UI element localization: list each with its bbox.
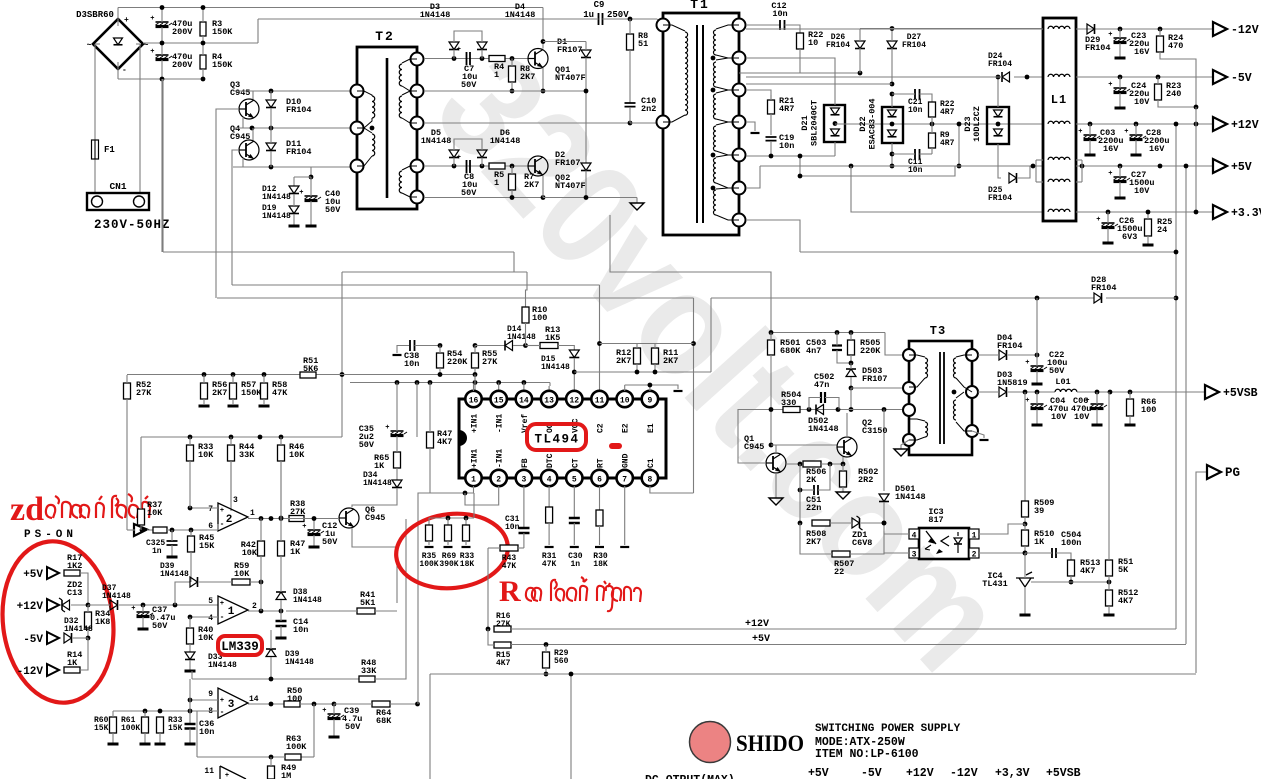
svg-text:1: 1	[494, 70, 499, 80]
resistor R59 10K	[232, 579, 250, 585]
resistor R33 10K	[187, 445, 194, 461]
transistor Q1 C945	[766, 453, 786, 473]
wire T2 r3 mid rail to T1	[424, 122, 630, 124]
wire D21 bottom	[834, 142, 836, 156]
svg-text:1n: 1n	[570, 560, 580, 569]
svg-text:SWITCHING POWER SUPPLY: SWITCHING POWER SUPPLY	[815, 723, 961, 735]
svg-text:E2: E2	[622, 423, 631, 433]
resistor R506 2K	[803, 461, 821, 467]
resistor R501 680K	[768, 340, 775, 355]
diode D3 1N4148	[449, 42, 459, 50]
wire PG riser	[1196, 472, 1207, 673]
wire pin3 FB	[523, 486, 525, 528]
svg-text:100: 100	[287, 694, 302, 704]
svg-text:1N4148: 1N4148	[541, 363, 570, 372]
svg-text:D21: D21	[800, 115, 810, 130]
diode D39b 1N4148	[266, 649, 276, 657]
svg-text:15K: 15K	[94, 724, 109, 733]
diode D501 1N4148	[879, 494, 889, 502]
output +3.3V	[1213, 205, 1227, 219]
capacitor C7 10u 50V	[467, 52, 471, 65]
logo SHIDO	[690, 722, 731, 763]
svg-text:4K7: 4K7	[1118, 596, 1133, 606]
svg-text:2K7: 2K7	[524, 180, 539, 190]
wire second rail	[143, 42, 258, 44]
resistor R507 22	[832, 551, 850, 557]
svg-text:2K7: 2K7	[212, 388, 227, 398]
svg-text:15K: 15K	[199, 541, 215, 551]
svg-text:+: +	[124, 16, 129, 25]
svg-text:50V: 50V	[461, 188, 477, 198]
svg-text:10n: 10n	[404, 359, 419, 369]
svg-text:7: 7	[208, 505, 213, 514]
svg-text:3: 3	[228, 699, 235, 711]
capacitor C06 470u 10V	[1091, 403, 1104, 405]
resistor R504 330	[783, 407, 800, 413]
svg-text:1: 1	[250, 509, 255, 518]
svg-text:9: 9	[647, 397, 652, 406]
svg-text:47K: 47K	[502, 562, 517, 571]
output -12V	[1213, 22, 1227, 36]
TL494 pin 9	[642, 391, 658, 407]
resistor R51 5K6	[300, 372, 316, 378]
resistor R33 18K	[463, 525, 470, 541]
ground near Q02	[630, 203, 644, 210]
svg-text:+5VSB: +5VSB	[1223, 387, 1258, 400]
svg-text:NT407F: NT407F	[555, 181, 586, 191]
svg-text:2: 2	[226, 514, 233, 526]
svg-text:1K: 1K	[290, 547, 301, 557]
IC U1 TL494 body	[459, 399, 666, 478]
svg-text:3: 3	[521, 476, 526, 485]
diode D12 1N4148	[289, 186, 299, 194]
wire +5VSB rail	[1008, 391, 1055, 393]
svg-text:TL431: TL431	[982, 579, 1008, 589]
svg-text:+3.3V: +3.3V	[1231, 207, 1261, 220]
TL494 pin 11	[591, 391, 607, 407]
svg-text:16V: 16V	[1149, 144, 1165, 154]
capacitor C36 10n	[185, 724, 196, 729]
wire pin7	[190, 507, 218, 509]
wire D23 bottom to D25	[998, 144, 1001, 178]
svg-text:FR107: FR107	[557, 45, 583, 55]
red mark near GND pin	[609, 443, 622, 449]
capacitor C325 1n	[167, 541, 178, 545]
resistor R61 100K	[142, 717, 149, 733]
svg-text:RT: RT	[597, 458, 606, 468]
svg-text:5K: 5K	[1118, 565, 1129, 575]
capacitor C40 10u 50V	[305, 195, 318, 197]
svg-text:TL494: TL494	[534, 433, 579, 447]
capacitor C19 10n	[766, 137, 777, 141]
svg-text:1N4148: 1N4148	[490, 136, 521, 146]
svg-text:24: 24	[1157, 225, 1167, 235]
svg-text:7: 7	[622, 476, 627, 485]
svg-text:~: ~	[87, 41, 92, 50]
resistor R8 2K7	[509, 66, 516, 82]
svg-text:-5V: -5V	[861, 767, 882, 779]
svg-text:22: 22	[834, 567, 844, 577]
svg-text:47K: 47K	[272, 388, 288, 398]
wire bus y285 to pin11 C2	[232, 284, 600, 286]
svg-text:100: 100	[532, 313, 547, 323]
TL494 pin 16	[465, 391, 481, 407]
wire D22 column	[891, 94, 893, 107]
svg-text:47K: 47K	[542, 560, 557, 569]
svg-text:10K: 10K	[242, 548, 258, 558]
wire row to T2 pin1	[233, 90, 357, 92]
svg-text:L01: L01	[1055, 377, 1070, 387]
resistor R37 10K	[138, 509, 145, 525]
svg-text:4: 4	[912, 532, 917, 541]
svg-text:1N4148: 1N4148	[293, 596, 322, 605]
svg-text:4R7: 4R7	[940, 139, 955, 148]
wire R48 row	[192, 678, 359, 680]
resistor R513 4K7	[1068, 560, 1075, 576]
svg-text:9: 9	[208, 690, 213, 699]
wire VCC pin12 column	[573, 372, 575, 391]
svg-text:50V: 50V	[1049, 366, 1065, 376]
snubber R22 4R7	[929, 102, 936, 117]
svg-text:2n2: 2n2	[641, 104, 656, 114]
capacitor C35 2u2 50V	[391, 430, 404, 432]
wire VCC pin3 from R44	[230, 461, 232, 507]
svg-text:-12V: -12V	[17, 666, 44, 678]
svg-text:15K: 15K	[168, 724, 183, 733]
resistor R35 100K	[426, 525, 433, 541]
comparator U2b	[218, 596, 248, 624]
svg-text:10n: 10n	[908, 106, 923, 115]
wire bus y272	[342, 271, 527, 273]
svg-text:C6V8: C6V8	[852, 538, 872, 548]
svg-text:zd: zd	[10, 491, 44, 528]
wire R21 top	[746, 90, 771, 100]
svg-text:220K: 220K	[447, 357, 468, 367]
resistor R29 560	[543, 652, 550, 668]
wire right bus verticals	[1175, 124, 1177, 629]
wire T1 sec to C12	[746, 24, 780, 26]
capacitor C8 10u 50V	[467, 160, 471, 173]
transistor Q2 C3150	[837, 437, 857, 457]
svg-text:50V: 50V	[461, 80, 477, 90]
diode block D22 ESAC83-004	[882, 107, 903, 143]
resistor R40 10K	[187, 628, 194, 644]
wire D12 column top	[310, 167, 312, 177]
svg-text:1K2: 1K2	[67, 561, 82, 571]
capacitor C30 1n	[569, 518, 580, 523]
svg-text:47n: 47n	[814, 380, 829, 390]
svg-text:200V: 200V	[172, 60, 193, 70]
svg-text:+: +	[457, 154, 461, 162]
diode D38 1N4148	[276, 592, 286, 600]
TL494 pin 12	[566, 391, 582, 407]
svg-text:10DL2CZ: 10DL2CZ	[972, 106, 982, 142]
capacitor C27 1500u 10V	[1114, 176, 1127, 178]
svg-text:DC OTPUT(MAX): DC OTPUT(MAX)	[645, 774, 735, 779]
svg-text:C945: C945	[230, 132, 250, 142]
svg-text:2: 2	[252, 602, 257, 611]
svg-text:10n: 10n	[908, 166, 923, 175]
wire R12 rail	[600, 343, 694, 345]
wire bus y298 C1 loop	[217, 297, 694, 299]
diode D32 1N4148	[64, 633, 72, 643]
wire x959 +12 to +5	[958, 124, 960, 166]
svg-text:10K: 10K	[234, 569, 250, 579]
wire Q01 collector rail	[543, 41, 586, 43]
TL494 pin 15	[491, 391, 507, 407]
svg-text:+3,3V: +3,3V	[995, 767, 1030, 779]
diode block D21 SBL2040CT	[824, 105, 845, 142]
svg-text:10: 10	[620, 397, 630, 406]
svg-text:LM339: LM339	[221, 640, 259, 654]
diode D15 1N4148	[569, 350, 579, 358]
wire Vref rail y382.5	[350, 382, 550, 384]
svg-text:D22: D22	[858, 116, 868, 131]
transistor Q01 NT407F	[528, 49, 548, 69]
wire opto pin2	[979, 552, 1025, 554]
svg-text:2K7: 2K7	[806, 537, 821, 547]
TL494 pin 4	[541, 470, 557, 486]
svg-text:230V-50HZ: 230V-50HZ	[94, 218, 171, 232]
svg-text:10: 10	[808, 38, 818, 48]
svg-text:ITEM NO:LP-6100: ITEM NO:LP-6100	[815, 748, 919, 761]
svg-text:1n: 1n	[152, 547, 162, 556]
svg-text:DTC: DTC	[546, 453, 555, 468]
capacitor C14 10n	[276, 621, 287, 626]
wire x610 to R501	[610, 215, 771, 333]
svg-text:1: 1	[471, 476, 476, 485]
wire T2 pin r1 row	[424, 58, 528, 60]
resistor R60 15K	[110, 717, 117, 733]
svg-text:1N4148: 1N4148	[64, 625, 93, 634]
svg-text:10n: 10n	[199, 727, 214, 737]
svg-text:560: 560	[554, 657, 569, 666]
resistor R508 2K7	[812, 520, 830, 526]
wire D21 top feed	[746, 58, 835, 105]
wire pin5 row D39a R59	[175, 582, 190, 605]
svg-text:12: 12	[569, 397, 579, 406]
svg-text:1N4148: 1N4148	[262, 193, 291, 202]
TL494 pin 8	[642, 470, 658, 486]
resistor on PS-ON line	[153, 527, 167, 533]
svg-text:PG: PG	[1225, 466, 1240, 480]
zener ZD2 C13	[62, 600, 70, 610]
resistor R34 1K8	[85, 612, 92, 628]
diode block D23 10DL2CZ	[987, 107, 1009, 144]
svg-text:1N4148: 1N4148	[102, 592, 131, 601]
svg-text:10V: 10V	[1051, 412, 1067, 422]
wire Q01 emitter	[542, 68, 544, 91]
diode D503 FR107	[846, 369, 856, 377]
svg-text:+: +	[220, 600, 224, 608]
wire x800 down	[799, 464, 801, 523]
svg-text:-: -	[220, 520, 225, 529]
ground at T1 pin	[746, 122, 755, 131]
resistor R49 1M	[268, 766, 275, 779]
svg-text:33K: 33K	[239, 450, 255, 460]
resistor R8 51	[627, 34, 634, 50]
diode D11 FR104	[266, 143, 276, 151]
wire bridge AC right	[139, 44, 141, 193]
svg-text:C2: C2	[597, 423, 606, 433]
resistor R33b 15K	[157, 717, 164, 733]
resistor R31 47K	[546, 507, 553, 523]
svg-text:10n: 10n	[293, 625, 308, 635]
wire +5V rail from T1	[760, 165, 1043, 167]
svg-text:100K: 100K	[121, 724, 140, 733]
diode D26 FR104	[855, 41, 865, 49]
diode D27 FR104	[887, 41, 897, 49]
svg-text:330: 330	[781, 398, 796, 408]
svg-text:R: R	[499, 575, 521, 608]
wire Q3 base	[216, 109, 239, 298]
red annotation ellipse around sense inputs	[0, 535, 122, 709]
svg-text:13: 13	[544, 397, 554, 406]
svg-text:C945: C945	[744, 442, 764, 452]
output PG	[1207, 465, 1221, 479]
wire D37 to C37 and comparators	[143, 604, 218, 606]
svg-text:11: 11	[204, 767, 214, 776]
diode D39 1N4148	[190, 577, 198, 587]
svg-text:PS-ON: PS-ON	[24, 529, 77, 541]
svg-text:-5V: -5V	[23, 634, 43, 646]
TL494 pin 13	[541, 391, 557, 407]
svg-text:+: +	[1108, 170, 1112, 178]
svg-text:390K: 390K	[439, 560, 458, 569]
svg-text:1K: 1K	[1034, 537, 1045, 547]
svg-text:FB: FB	[521, 458, 530, 468]
svg-text:T1: T1	[690, 0, 710, 12]
capacitor C39 4.7u 50V	[328, 713, 341, 715]
svg-text:4: 4	[208, 614, 213, 623]
svg-text:+: +	[322, 707, 326, 715]
svg-text:3: 3	[233, 496, 238, 505]
svg-text:+: +	[131, 605, 135, 613]
svg-text:+12V: +12V	[17, 601, 44, 613]
wire TL431 ref row	[1031, 581, 1109, 583]
output -5V	[1213, 70, 1227, 84]
wire T2 r2 row	[424, 90, 543, 92]
resistor R512 4K7	[1106, 590, 1113, 606]
wire top rail	[118, 7, 543, 9]
svg-text:+: +	[220, 697, 224, 705]
resistor R10 100	[522, 307, 529, 323]
svg-text:1N4148: 1N4148	[208, 661, 237, 670]
svg-text:+: +	[1108, 31, 1112, 39]
snubber C11 10n	[915, 149, 920, 159]
wire R504 row to T3 pin3	[738, 409, 903, 411]
svg-text:10n: 10n	[772, 9, 787, 19]
resistor R41 5K1	[357, 608, 375, 614]
wire -12V top rail	[860, 28, 1043, 30]
svg-text:27K: 27K	[482, 357, 498, 367]
capacitor C38 10n	[397, 346, 409, 354]
svg-text:240: 240	[1166, 89, 1181, 99]
svg-text:220K: 220K	[860, 346, 881, 356]
svg-text:FR107: FR107	[555, 158, 581, 168]
comparator U2a	[218, 503, 248, 531]
wire from caps to lower circuits	[161, 79, 163, 252]
svg-text:5K6: 5K6	[303, 364, 318, 374]
svg-text:817: 817	[928, 515, 943, 525]
svg-text:+: +	[150, 48, 154, 56]
TL494 pin 10	[617, 391, 633, 407]
resistor R50 100	[284, 701, 300, 707]
wire pin8 rail	[113, 710, 218, 712]
TL494 pin 14	[516, 391, 532, 407]
svg-text:27K: 27K	[136, 388, 152, 398]
TL494 pin 2	[491, 470, 507, 486]
svg-text:2: 2	[496, 476, 501, 485]
svg-text:18K: 18K	[460, 560, 475, 569]
resistor R58 47K	[261, 383, 268, 399]
svg-text:-12V: -12V	[1231, 24, 1259, 37]
svg-text:2K7: 2K7	[520, 72, 535, 82]
svg-text:~: ~	[144, 41, 149, 50]
svg-text:1: 1	[494, 178, 499, 188]
svg-text:1: 1	[228, 606, 235, 618]
svg-text:68K: 68K	[376, 716, 392, 726]
wire opto pin4	[884, 531, 909, 534]
diode D37 1N4148	[110, 600, 118, 610]
capacitor C37 0.47u 50V	[137, 611, 150, 613]
wire D503 to T3 pin2	[851, 387, 903, 389]
svg-text:+: +	[1108, 81, 1112, 89]
resistor R43 47K	[500, 545, 518, 551]
svg-text:1N4148: 1N4148	[285, 658, 314, 667]
diode D14 1N4148	[505, 341, 513, 351]
resistor R46 10K	[278, 445, 285, 461]
svg-text:100: 100	[1141, 405, 1156, 415]
diode D25 FR104	[1009, 173, 1017, 183]
wire aux row y176	[800, 166, 955, 176]
resistor R42 10K	[258, 541, 265, 556]
svg-text:680K: 680K	[780, 346, 801, 356]
resistor R505 220K	[848, 340, 855, 355]
wire +12V out	[1076, 123, 1213, 125]
wire aux row y252	[800, 251, 1176, 253]
svg-text:10V: 10V	[1134, 97, 1150, 107]
wire T3 left pin4 gnd	[901, 440, 909, 449]
svg-text:4R7: 4R7	[940, 108, 955, 117]
svg-text:GND: GND	[622, 453, 631, 468]
resistor R44 33K	[228, 445, 235, 461]
wire pin6 RT to R30	[599, 486, 601, 510]
wire pin9	[190, 699, 218, 701]
svg-text:50V: 50V	[322, 537, 338, 547]
wire opto pin3	[884, 552, 909, 554]
wire Q1 emitter	[775, 473, 777, 498]
wire D2 bottom to Q02 row	[585, 178, 587, 198]
svg-text:-5V: -5V	[1231, 72, 1252, 85]
bridge rectifier D3SBR60	[93, 19, 143, 69]
snubber C21 10n	[915, 89, 920, 99]
wire row to T2 pin2	[233, 127, 357, 129]
wire D3-D4 loop	[454, 31, 482, 42]
svg-text:10K: 10K	[198, 450, 214, 460]
svg-text:6V3: 6V3	[1122, 232, 1137, 242]
svg-text:100K: 100K	[419, 560, 438, 569]
svg-text:10K: 10K	[147, 508, 163, 518]
wire Q2 collector	[846, 413, 848, 437]
resistor R4 150K	[200, 55, 206, 69]
svg-text:CN1: CN1	[109, 181, 126, 192]
svg-text:2R2: 2R2	[858, 475, 873, 485]
svg-text:L1: L1	[1051, 93, 1067, 107]
wire PS-ON line	[147, 529, 153, 531]
svg-text:4K7: 4K7	[1080, 566, 1095, 576]
resistor R510 1K	[1022, 530, 1029, 546]
